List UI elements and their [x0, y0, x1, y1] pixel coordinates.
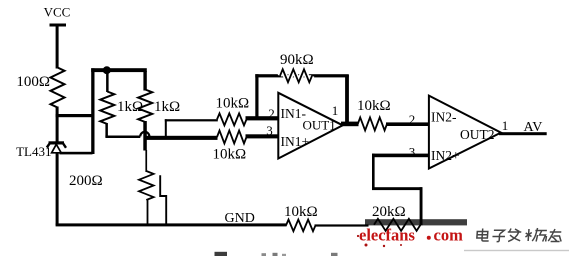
ground rail: [56, 223, 287, 226]
svg-text:100Ω: 100Ω: [16, 74, 50, 90]
wire IN1- thin horizontal: [165, 119, 218, 121]
resistor R 1k right top lead: [143, 71, 146, 91]
resistor R 1k left: [100, 92, 114, 125]
wire 1k left bottom lead: [105, 123, 108, 137]
resistor R 20k: [374, 219, 421, 231]
svg-text:10kΩ: 10kΩ: [216, 96, 250, 112]
wire ref loop bottom y153: [60, 152, 93, 155]
resistor R 10k (IN1+): [217, 131, 247, 144]
svg-text:1kΩ: 1kΩ: [154, 99, 180, 115]
svg-text:1: 1: [332, 103, 339, 118]
wire 10k to IN2-: [386, 122, 431, 126]
wire z-path vertical x373: [372, 154, 375, 190]
wire 200 ohm bottom lead: [147, 199, 149, 225]
svg-text:IN2-: IN2-: [431, 110, 457, 125]
wire 1k bottoms tie y136.6: [105, 136, 140, 139]
wire 1k left top lead: [106, 71, 109, 92]
svg-text:90kΩ: 90kΩ: [280, 52, 314, 68]
wire ref loop right leg x93: [91, 68, 94, 154]
svg-text:elecfans: elecfans: [359, 226, 415, 245]
wire R100 to TL431 cathode: [56, 107, 59, 143]
wire 10k to pin3 thick: [246, 134, 280, 138]
svg-text:OUT2: OUT2: [460, 127, 495, 142]
svg-text:10kΩ: 10kΩ: [284, 204, 318, 220]
svg-text:3: 3: [266, 123, 273, 138]
feedback left leg: [255, 74, 258, 118]
watermark splatter: [365, 244, 368, 247]
wiper arm bent wire: [160, 175, 166, 224]
op-amp U1: [278, 93, 342, 159]
svg-text:1kΩ: 1kΩ: [117, 99, 143, 115]
wire 1k right bottom lead down through hop: [143, 121, 147, 151]
TL431 U1: [47, 141, 66, 153]
watermark elecfans.com: [359, 226, 463, 245]
svg-text:IN1+: IN1+: [281, 134, 310, 149]
svg-text:2: 2: [409, 112, 416, 127]
wire thin to 200 ohm: [145, 150, 147, 172]
svg-text:OUT1: OUT1: [303, 118, 336, 133]
resistor R 10k (IN1-): [217, 113, 247, 125]
svg-text:IN2+: IN2+: [431, 148, 460, 163]
resistor R 1k right: [138, 90, 152, 123]
op-amp U2: [429, 96, 501, 169]
resistor R 90k: [280, 69, 312, 82]
svg-text:3: 3: [409, 145, 416, 160]
wire top rail y70: [91, 68, 147, 72]
resistor R 200 ohm: [139, 171, 154, 200]
gray box edge bottom right: [464, 250, 569, 251]
resistor R 10k (OUT1 to IN2-): [358, 117, 387, 130]
junction dot: [103, 66, 111, 74]
resistor R 10k (rail): [286, 220, 316, 232]
wire z-path horizontal y188.6: [372, 187, 422, 190]
wire IN1- tap vertical: [165, 119, 167, 137]
svg-text:TL431: TL431: [16, 144, 51, 159]
svg-text:VCC: VCC: [44, 5, 71, 20]
svg-text:com: com: [434, 226, 464, 245]
hop arc over vertical: [140, 132, 149, 137]
svg-text:10kΩ: 10kΩ: [357, 98, 391, 114]
feedback top wire: [255, 74, 348, 77]
wire mid rail thick to 10k IN1+: [146, 136, 218, 140]
svg-text:20kΩ: 20kΩ: [372, 204, 406, 220]
svg-text:1: 1: [502, 118, 509, 133]
wire OUT1: [341, 122, 359, 127]
wire IN2+ horizontal: [372, 154, 429, 158]
resistor 100 ohm: [51, 68, 65, 108]
wire TL431 anode to ground rail: [56, 153, 59, 226]
wire 10k to pin2 thick: [246, 116, 280, 120]
wire node to ref loop (horizontal y115): [56, 114, 95, 117]
power VCC terminal bar: [50, 24, 67, 27]
watermark gray bar: [365, 219, 467, 225]
svg-text:200Ω: 200Ω: [69, 173, 103, 189]
watermark chinese 电子发烧友: [477, 228, 562, 242]
svg-text:GND: GND: [225, 211, 255, 226]
wire OUT2 to AV: [499, 132, 547, 135]
svg-text:AV: AV: [524, 120, 543, 135]
svg-text:10kΩ: 10kΩ: [213, 147, 247, 163]
wire VCC to R 100: [56, 25, 59, 69]
feedback right leg: [345, 75, 349, 125]
wire z-path vertical x421: [420, 187, 423, 225]
caption remnants: [215, 252, 228, 256]
svg-text:2: 2: [268, 106, 275, 121]
wire rail mid: [315, 224, 369, 226]
